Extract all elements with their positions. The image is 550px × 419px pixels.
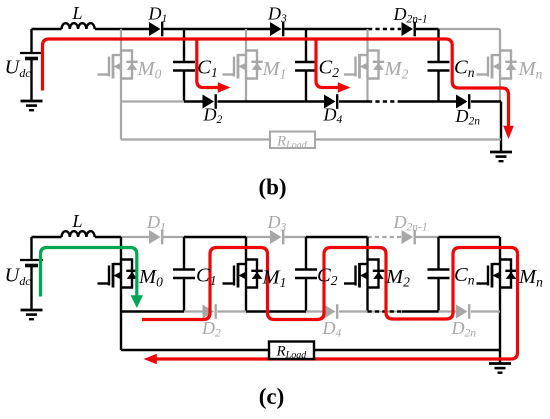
wire top rail D1 to D3 bbox=[164, 28, 271, 30]
svg-text:Mn: Mn bbox=[518, 58, 543, 82]
diode D3 gray c bbox=[270, 230, 283, 245]
transistor M2 c bbox=[344, 260, 384, 288]
svg-text:D1: D1 bbox=[146, 212, 166, 234]
wire gray mid rail Cn to D2n c bbox=[439, 310, 457, 312]
svg-text:C2: C2 bbox=[319, 57, 340, 81]
svg-text:M2: M2 bbox=[385, 266, 410, 290]
wire top rail C1 to M1 c bbox=[184, 236, 246, 238]
diode D2n-1 gray c bbox=[402, 230, 415, 245]
svg-text:D3: D3 bbox=[267, 212, 287, 234]
wire M1 source c bbox=[245, 288, 247, 312]
transistor Mn c bbox=[477, 260, 517, 288]
wire top rail dashed segment bbox=[368, 28, 401, 30]
wire gray mid rail C1 to D2 c bbox=[184, 310, 203, 312]
wire red branch into D4 bbox=[316, 39, 338, 88]
wire gray mid rail D2n to Mn c bbox=[471, 310, 500, 312]
ground left c bbox=[21, 310, 43, 319]
wire top rail to Cn bbox=[416, 28, 439, 30]
diode D4 bbox=[324, 94, 337, 109]
svg-text:M2: M2 bbox=[384, 58, 409, 82]
svg-text:D2n-1: D2n-1 bbox=[393, 212, 428, 234]
wire top rail to D1 bbox=[95, 28, 149, 30]
wire Cn bottom bbox=[437, 71, 439, 102]
wire C1 top c bbox=[183, 237, 185, 270]
wire C1 bottom c bbox=[183, 278, 185, 312]
wire mid rail D2 to D4 bbox=[218, 100, 325, 102]
wire C2 top bbox=[305, 29, 307, 62]
capacitor C1 c bbox=[173, 270, 195, 279]
transistor M0 bbox=[98, 51, 138, 79]
diode D2 bbox=[203, 94, 216, 109]
svg-text:D2: D2 bbox=[203, 105, 223, 127]
svg-text:(c): (c) bbox=[259, 384, 285, 409]
capacitor C2 bbox=[295, 62, 317, 71]
diode D3 bbox=[270, 22, 283, 37]
wire M2 drain c bbox=[366, 237, 368, 260]
wire gray M0 drain bbox=[120, 29, 122, 51]
svg-text:L: L bbox=[72, 3, 83, 23]
svg-text:D2n: D2n bbox=[455, 106, 481, 128]
wire gray top rail D1 to C1 c bbox=[164, 236, 185, 238]
svg-text:M0: M0 bbox=[137, 58, 162, 82]
inductor L c bbox=[62, 231, 95, 237]
wire M1 drain c bbox=[245, 237, 247, 260]
wire top rail left segment bbox=[32, 28, 62, 30]
wire gray top rail to Cn c bbox=[416, 236, 439, 238]
wire gray Mn drain bbox=[499, 29, 501, 51]
svg-text:C1: C1 bbox=[196, 265, 216, 289]
wire load rail c bbox=[121, 349, 500, 351]
svg-text:D2: D2 bbox=[201, 318, 221, 340]
svg-text:Cn: Cn bbox=[454, 264, 475, 288]
wire gray mid rail C2 to D4 c bbox=[306, 310, 324, 312]
ground right b bbox=[490, 152, 512, 161]
wire Mn drain c bbox=[499, 237, 501, 260]
wire mid rail D4 onward bbox=[339, 100, 368, 102]
wire battery to ground bbox=[30, 59, 32, 101]
svg-text:(b): (b) bbox=[258, 175, 286, 200]
svg-text:C2: C2 bbox=[317, 265, 338, 289]
wire gray mid rail M0 to C1 bbox=[121, 100, 184, 102]
red arrowhead down b bbox=[503, 126, 514, 139]
wire gray mid rail underlay M2 to Cn c bbox=[368, 311, 439, 313]
wire battery to ground c bbox=[30, 266, 32, 310]
wire gray M1 drain bbox=[245, 29, 247, 51]
svg-text:M0: M0 bbox=[138, 266, 163, 290]
transistor M1 c bbox=[223, 260, 263, 288]
svg-text:D3: D3 bbox=[267, 4, 287, 26]
svg-text:Cn: Cn bbox=[454, 57, 475, 81]
wire C2 bottom bbox=[305, 71, 307, 102]
wire red branch into D2 bbox=[197, 39, 218, 88]
capacitor Cn c bbox=[428, 270, 450, 279]
wire C1 bottom bbox=[183, 71, 185, 102]
wire gray M1 source bbox=[245, 79, 247, 102]
wire top rail Cn to Mn c bbox=[439, 236, 501, 238]
ground right c bbox=[489, 364, 511, 373]
svg-text:Udc: Udc bbox=[5, 265, 32, 289]
svg-text:M1: M1 bbox=[262, 267, 287, 291]
wire M0 drain c bbox=[120, 237, 122, 260]
svg-text:Mn: Mn bbox=[518, 266, 543, 290]
diode D2 gray c bbox=[203, 304, 216, 319]
svg-text:L: L bbox=[72, 211, 83, 231]
wire red weaving current path c bbox=[142, 248, 518, 360]
capacitor Cn bbox=[428, 62, 450, 71]
transistor M2 bbox=[344, 51, 384, 79]
svg-text:D4: D4 bbox=[323, 105, 343, 127]
wire gray dashed top rail c bbox=[368, 236, 402, 238]
diode D2n-1 bbox=[402, 22, 415, 37]
svg-text:C1: C1 bbox=[197, 57, 217, 81]
wire mid rail M1 to C2 c bbox=[246, 310, 306, 312]
svg-text:D1: D1 bbox=[148, 4, 168, 26]
wire Cn top bbox=[437, 29, 439, 62]
wire mid rail M0 to C1 c bbox=[121, 310, 184, 312]
wire source Udc to top rail bbox=[30, 29, 32, 53]
transistor M0 c bbox=[98, 260, 138, 288]
wire gray top rail to D1 c bbox=[121, 236, 149, 238]
wire mid rail D2n to right bbox=[471, 100, 501, 102]
wire M0 source down to load rail c bbox=[120, 288, 122, 351]
diode D4 gray c bbox=[324, 304, 337, 319]
wire gray mid rail D4 to M2 c bbox=[339, 310, 368, 312]
wire mid rail to Cn c bbox=[402, 310, 439, 312]
capacitor C1 bbox=[173, 62, 195, 71]
green arrowhead down c bbox=[131, 295, 143, 308]
wire mid rail to D2n bbox=[401, 100, 456, 102]
wire gray Mn source bbox=[499, 79, 501, 102]
wire gray M2 drain bbox=[366, 29, 368, 51]
diode D2n bbox=[456, 94, 469, 109]
wire gray top rail D3 to C2 c bbox=[285, 236, 307, 238]
red arrowhead left return c bbox=[144, 354, 157, 364]
wire top rail left segment c bbox=[32, 236, 62, 238]
red arrowhead right at D4 bbox=[338, 82, 351, 92]
resistor RLoad c bbox=[269, 342, 314, 360]
wire right down to ground bbox=[500, 102, 502, 152]
source Udc battery c bbox=[20, 260, 43, 266]
wire mid rail dashed segment bbox=[368, 100, 401, 102]
svg-text:M1: M1 bbox=[262, 58, 287, 82]
diode D2n gray c bbox=[456, 304, 469, 319]
wire Cn bottom c bbox=[437, 278, 439, 312]
svg-text:D4: D4 bbox=[322, 318, 342, 340]
capacitor C2 c bbox=[295, 270, 317, 279]
wire M2 source c bbox=[366, 288, 368, 312]
wire gray load rail bbox=[121, 138, 501, 140]
resistor RLoad b bbox=[270, 132, 315, 149]
red arrowhead right at D2 bbox=[218, 82, 231, 92]
svg-text:D2n-1: D2n-1 bbox=[393, 4, 428, 26]
wire C2 bottom c bbox=[305, 278, 307, 312]
wire gray M0 source down to load rail bbox=[120, 79, 122, 140]
ground left b bbox=[21, 101, 43, 110]
wire gray top rail M1 to D3 c bbox=[246, 236, 270, 238]
wire C2 top c bbox=[305, 237, 307, 270]
wire source Udc to top rail c bbox=[30, 237, 32, 260]
wire Mn source down to ground c bbox=[499, 288, 501, 364]
wire C1 top bbox=[183, 29, 185, 62]
wire top rail D3 to dashes bbox=[285, 28, 369, 30]
wire red current path main b bbox=[43, 39, 509, 127]
wire green current path c bbox=[41, 248, 137, 297]
wire Cn top c bbox=[437, 237, 439, 270]
wire mid rail C1 to D2 bbox=[184, 100, 203, 102]
wire top rail to M0 c bbox=[95, 236, 121, 238]
svg-text:D2n: D2n bbox=[451, 318, 477, 340]
transistor M1 bbox=[223, 51, 263, 79]
source Udc battery bbox=[20, 53, 43, 59]
transistor Mn bbox=[477, 51, 517, 79]
wire top rail C2 to M2 c bbox=[306, 236, 368, 238]
diode D1 gray c bbox=[149, 230, 162, 245]
wire gray mid rail D2 to M1 c bbox=[218, 310, 247, 312]
wire gray top rail Cn to Mn bbox=[439, 28, 501, 30]
wire gray M2 source bbox=[366, 79, 368, 102]
wire dashed mid rail M2 c bbox=[368, 310, 403, 312]
inductor L bbox=[62, 23, 95, 29]
diode D1 bbox=[149, 22, 162, 37]
